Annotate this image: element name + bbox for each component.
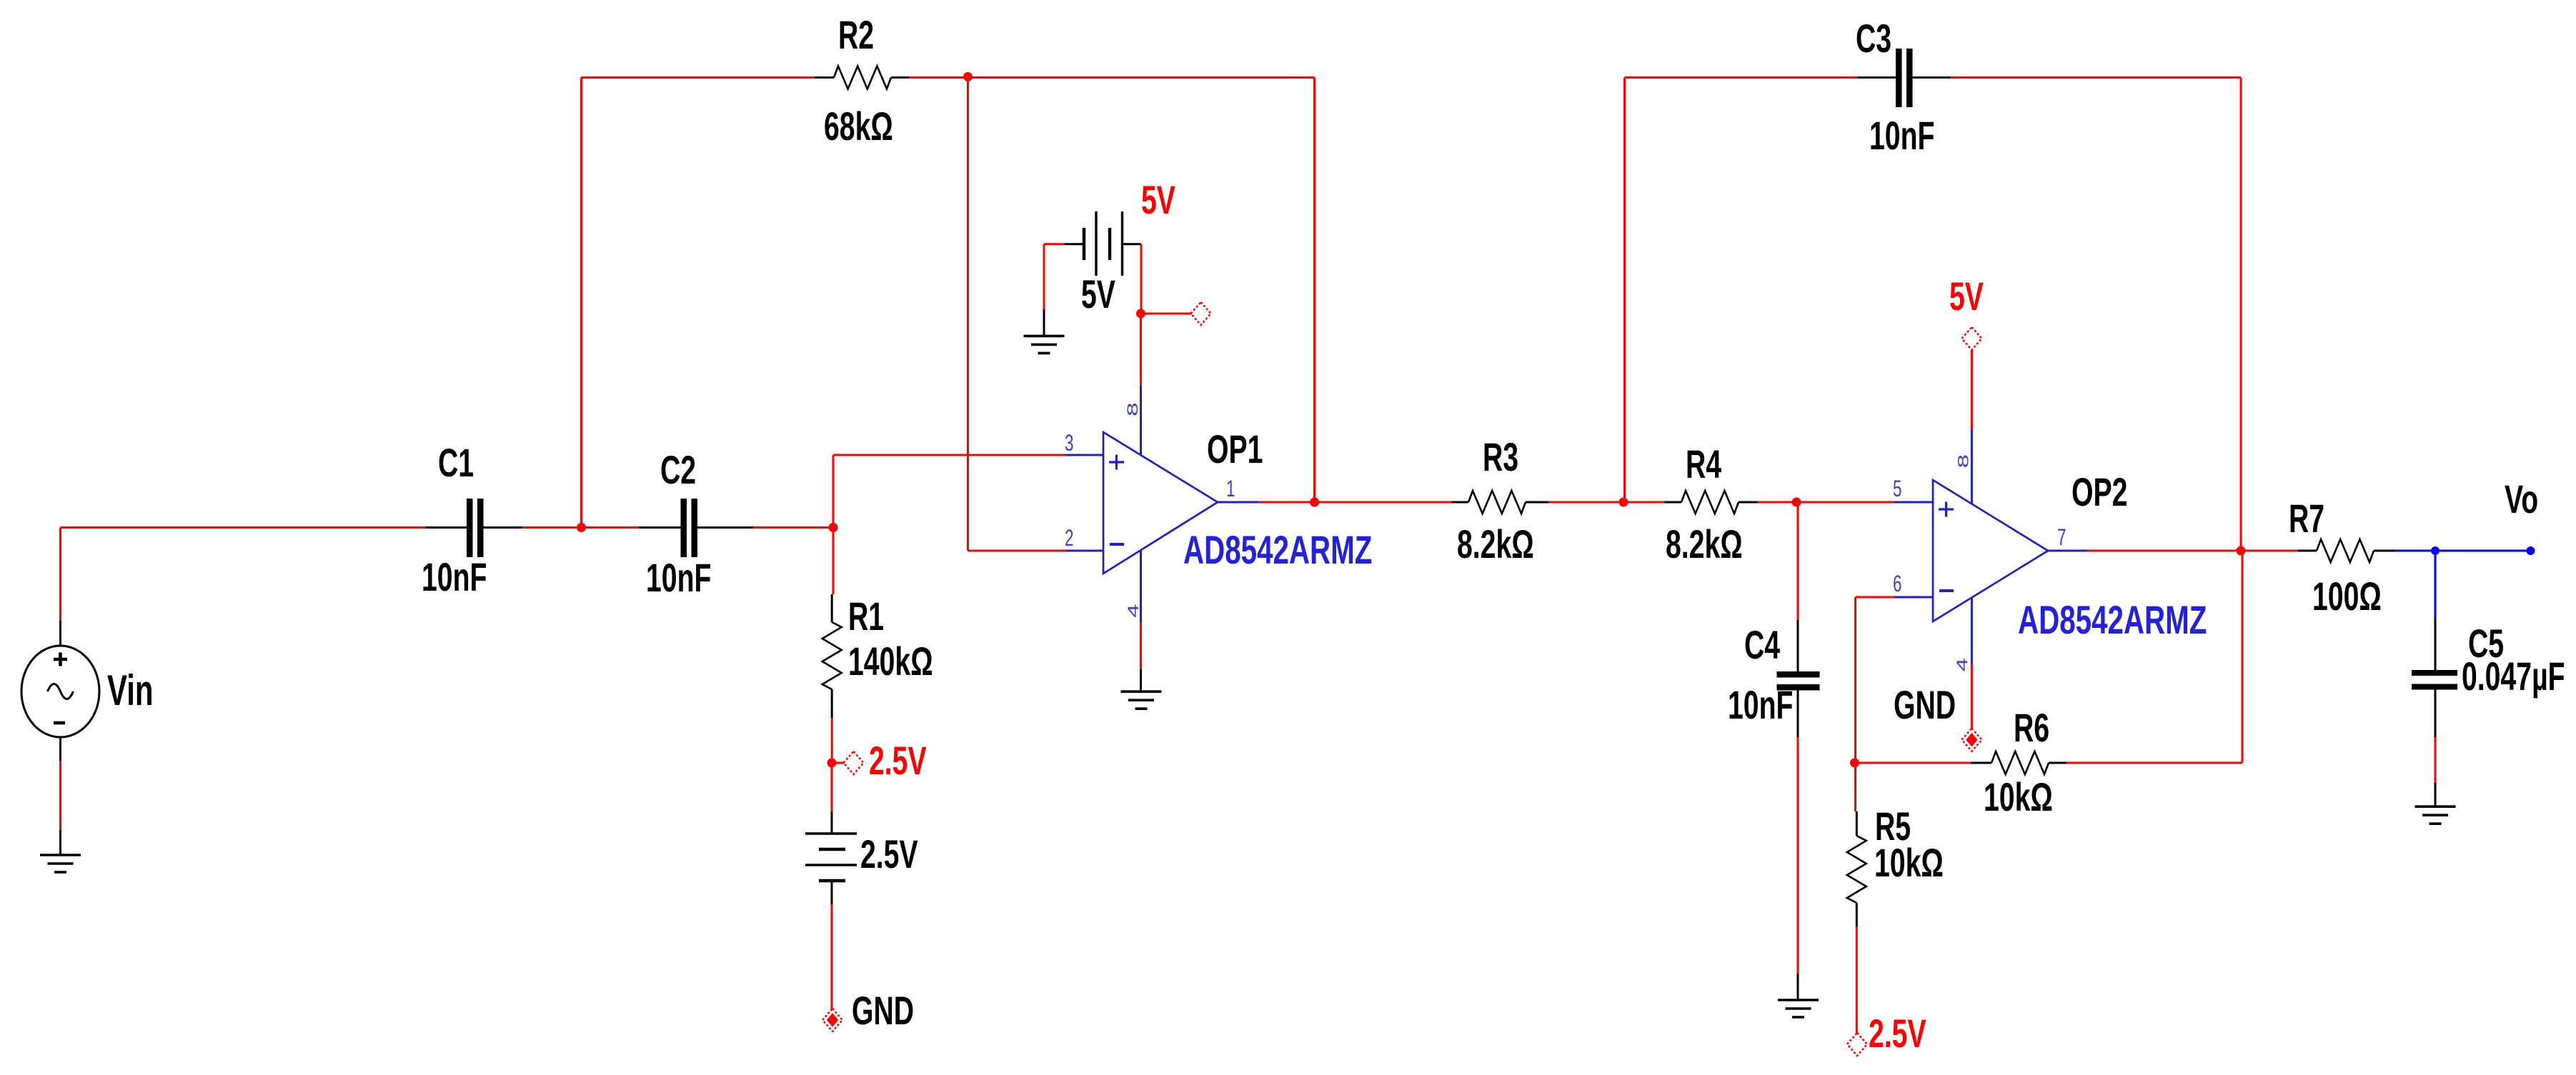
- label Vin: [107, 666, 154, 714]
- wire node E to R3: [1315, 501, 1452, 504]
- label C4: [1744, 623, 1780, 668]
- resistor R2: [815, 66, 909, 89]
- svg-text:GND: GND: [852, 989, 914, 1034]
- OP1 pin 4 number: [1125, 604, 1142, 618]
- wire node A to C2: [582, 526, 639, 529]
- svg-text:68kΩ: 68kΩ: [824, 104, 893, 149]
- wire OP2 pin 6 to node H: [1856, 597, 1894, 763]
- wire node D to 5V connector: [1141, 313, 1193, 315]
- OP2 pin 6 stub: [1894, 596, 1934, 599]
- capacitor C4: [1777, 671, 1820, 691]
- label C2: [660, 448, 696, 493]
- wire rail node B to right corner: [968, 76, 1315, 79]
- svg-text:2.5V: 2.5V: [869, 739, 927, 784]
- wire R5 down to 2.5V connector: [1856, 927, 1858, 1034]
- svg-text:7: 7: [2057, 524, 2066, 550]
- svg-text:C1: C1: [438, 441, 474, 486]
- net connector 5V (OP2): [1961, 327, 1981, 350]
- wire rail left segment to R2: [582, 76, 815, 79]
- value 140kΩ of R1: [848, 639, 933, 684]
- wire node J down to C5: [2435, 551, 2437, 670]
- value 8.2kΩ of R4: [1666, 522, 1743, 567]
- resistor R1: [822, 528, 842, 719]
- net label 2.5V (bottom): [1869, 1011, 1926, 1056]
- OP1 pin 1 output stub: [1218, 501, 1258, 504]
- svg-text:10kΩ: 10kΩ: [1984, 775, 2053, 820]
- value 10nF of C3: [1869, 114, 1934, 159]
- op-amp OP1 triangle: [1103, 432, 1218, 574]
- svg-text:Vo: Vo: [2505, 477, 2538, 522]
- wire R1 to 2.5V node: [831, 718, 833, 763]
- ground below battery V1: [1024, 336, 1065, 353]
- wire rail down to OP1 output: [1313, 78, 1316, 503]
- label R6: [2014, 706, 2049, 751]
- wire node C down to R1: [832, 528, 835, 595]
- svg-text:10nF: 10nF: [1869, 114, 1934, 159]
- OP1 pin 8 stub: [1140, 386, 1142, 455]
- value 10kΩ of R5: [1874, 841, 1944, 886]
- label C3: [1856, 16, 1891, 61]
- svg-text:Vin: Vin: [107, 666, 154, 714]
- wire 2.5V node to battery V2: [831, 763, 833, 834]
- node J junction (Vo net): [2431, 546, 2440, 555]
- value 2.5V of battery V2: [860, 832, 918, 877]
- node D junction (5V supply): [1136, 309, 1145, 319]
- AC source Vin: [21, 621, 99, 761]
- wire C5 down to ground: [2435, 690, 2437, 807]
- net label GND (OP2): [1894, 683, 1956, 728]
- wire OP2 pin 4 down to GND connector: [1971, 664, 1973, 729]
- svg-text:8.2kΩ: 8.2kΩ: [1666, 522, 1743, 567]
- label AD8542ARMZ (OP2): [2018, 599, 2207, 643]
- wire R4 to node G: [1758, 501, 1796, 504]
- svg-text:OP2: OP2: [2072, 470, 2127, 515]
- svg-text:6: 6: [1893, 571, 1901, 596]
- value 68kΩ of R2: [824, 104, 893, 149]
- svg-text:5: 5: [1893, 476, 1901, 501]
- wire Vin bottom: [59, 761, 61, 855]
- label OP2: [2072, 470, 2127, 515]
- svg-text:8: 8: [1125, 402, 1141, 416]
- wire battery V1 left to ground: [1043, 244, 1045, 336]
- OP1 pin 8 number: [1125, 402, 1141, 416]
- OP2 pin 4 stub: [1971, 598, 1973, 664]
- OP2 pin 4 number: [1954, 658, 1971, 672]
- svg-text:140kΩ: 140kΩ: [848, 639, 933, 684]
- value 5V of battery V1: [1081, 272, 1115, 317]
- resistor R7: [2298, 539, 2395, 562]
- wire C1 to node A: [522, 526, 582, 529]
- label AD8542ARMZ (OP1): [1183, 529, 1372, 573]
- svg-text:5V: 5V: [1081, 272, 1115, 317]
- OP1 pin 2 stub: [1065, 550, 1103, 552]
- ground below C4: [1778, 1000, 1819, 1017]
- svg-text:5V: 5V: [1949, 274, 1984, 319]
- node C junction (C2-R1-pin3): [829, 523, 838, 532]
- OP2 pin 5 number: [1893, 476, 1901, 501]
- OP2 pin 8 stub: [1971, 429, 1973, 504]
- svg-text:4: 4: [1125, 604, 1142, 618]
- wire battery V1 right down to node D: [1140, 244, 1143, 314]
- svg-text:10nF: 10nF: [646, 556, 711, 601]
- wire R3 to node F: [1548, 501, 1623, 504]
- svg-text:OP1: OP1: [1207, 427, 1263, 472]
- op-amp OP2 triangle: [1933, 480, 2048, 621]
- OP2 pin 7 output stub: [2048, 550, 2088, 552]
- svg-text:4: 4: [1954, 658, 1971, 672]
- net label 5V (OP1): [1141, 178, 1175, 223]
- resistor R5: [1847, 811, 1866, 927]
- svg-text:C2: C2: [660, 448, 696, 493]
- wire node I to R7: [2241, 550, 2298, 552]
- node Vo endpoint: [2527, 546, 2535, 555]
- node 2.5V junction: [827, 759, 845, 768]
- wire R7 to node J (blue net): [2395, 550, 2435, 552]
- label R2: [838, 13, 874, 58]
- svg-text:AD8542ARMZ: AD8542ARMZ: [2018, 599, 2207, 643]
- net connector 2.5V (bottom): [1847, 1033, 1867, 1056]
- wire OP2 output to node I: [2088, 550, 2241, 552]
- node E junction (OP1 output): [1310, 498, 1319, 507]
- wire node H down to R5: [1854, 763, 1856, 811]
- battery V1 5V: [1044, 211, 1141, 276]
- resistor R4: [1664, 491, 1758, 514]
- OP1 pin 3 number: [1065, 430, 1073, 456]
- wire node C up and right to pin 3: [833, 455, 1065, 528]
- svg-text:2.5V: 2.5V: [1869, 1011, 1926, 1056]
- OP2 pin 7 number: [2057, 524, 2066, 550]
- net connector 5V (OP1): [1191, 302, 1211, 325]
- wire R2 to node B: [909, 76, 968, 79]
- value 10nF of C2: [646, 556, 711, 601]
- node B junction (R2 - pin2 riser): [963, 72, 973, 81]
- label R7: [2289, 496, 2324, 541]
- value 10kΩ of R6: [1984, 775, 2053, 820]
- net connector 2.5V (mid): [844, 751, 864, 774]
- svg-text:1: 1: [1226, 476, 1235, 501]
- svg-text:R7: R7: [2289, 496, 2324, 541]
- svg-text:100Ω: 100Ω: [2312, 574, 2382, 619]
- OP1 pin 1 number: [1226, 476, 1235, 501]
- svg-text:R1: R1: [848, 594, 884, 639]
- resistor R3: [1451, 491, 1548, 514]
- wire node A up to R2 rail: [580, 78, 582, 528]
- capacitor C3: [1857, 49, 1951, 107]
- svg-text:5V: 5V: [1141, 178, 1175, 223]
- ground below Vin: [40, 855, 81, 872]
- wire C2 to node C: [753, 526, 833, 529]
- node I junction (OP2 output): [2237, 546, 2246, 556]
- svg-text:10nF: 10nF: [1728, 683, 1793, 728]
- wire OP1 output to node E: [1258, 501, 1315, 504]
- capacitor C1: [426, 499, 522, 557]
- wire OP1 pin 4 to ground: [1140, 622, 1142, 691]
- net connector GND (OP2): [1961, 729, 1981, 751]
- node H junction (pin6-R5-R6): [1850, 759, 1859, 768]
- label R5: [1875, 804, 1911, 849]
- wire node H to R6: [1855, 762, 1971, 764]
- OP1 pin 3 stub: [1065, 454, 1103, 456]
- svg-text:GND: GND: [1894, 683, 1956, 728]
- wire node G to OP2 pin 5: [1796, 501, 1894, 504]
- svg-text:AD8542ARMZ: AD8542ARMZ: [1183, 529, 1372, 573]
- svg-text:R6: R6: [2014, 706, 2049, 751]
- svg-text:0.047µF: 0.047µF: [2462, 654, 2565, 699]
- svg-text:R2: R2: [838, 13, 874, 58]
- svg-text:3: 3: [1065, 430, 1073, 456]
- value 100Ω of R7: [2312, 574, 2382, 619]
- ground below C5: [2415, 806, 2456, 824]
- svg-text:8.2kΩ: 8.2kΩ: [1457, 522, 1534, 567]
- resistor R6: [1971, 751, 2067, 774]
- net label 5V (OP2): [1949, 274, 1984, 319]
- net label 2.5V (mid): [869, 739, 927, 784]
- svg-text:2.5V: 2.5V: [860, 832, 918, 877]
- svg-text:C3: C3: [1856, 16, 1891, 61]
- svg-text:R3: R3: [1483, 435, 1518, 480]
- value 10nF of C4: [1728, 683, 1793, 728]
- wire Vin top to main line: [61, 528, 427, 621]
- label R3: [1483, 435, 1518, 480]
- wire 5V connector down to OP2 pin 8: [1971, 350, 1973, 429]
- net label Vo: [2505, 477, 2538, 522]
- value 8.2kΩ of R3: [1457, 522, 1534, 567]
- value 10nF of C1: [422, 555, 487, 600]
- wire node J to Vo: [2435, 550, 2531, 552]
- wire node F up to C3 rail: [1625, 78, 1858, 503]
- svg-text:R4: R4: [1686, 442, 1721, 487]
- label C1: [438, 441, 474, 486]
- OP2 pin 5 stub: [1894, 501, 1934, 504]
- capacitor C5: [2412, 670, 2457, 690]
- svg-text:2: 2: [1065, 525, 1073, 551]
- wire node B down to pin2 corner: [968, 78, 1066, 551]
- value 0.047µF of C5: [2462, 654, 2565, 699]
- svg-text:C4: C4: [1744, 623, 1780, 668]
- battery V2 2.5V: [805, 834, 857, 881]
- wire C3 right to OP2 output: [1951, 78, 2242, 551]
- OP2 pin 6 number: [1893, 571, 1901, 596]
- svg-text:8: 8: [1955, 454, 1971, 469]
- node F junction (R3-R4-C3): [1619, 498, 1628, 507]
- label R1: [848, 594, 884, 639]
- node G junction (R4-C4-pin5): [1792, 498, 1801, 507]
- wire R6 to output riser: [2067, 551, 2242, 763]
- OP2 pin 8 number: [1955, 454, 1971, 469]
- net label GND (bottom left): [852, 989, 914, 1034]
- node A junction (C1-C2, feedback riser): [577, 523, 586, 532]
- ground below OP1: [1121, 691, 1162, 709]
- wire battery V2 to GND: [831, 881, 833, 1009]
- OP1 pin 4 stub: [1140, 551, 1142, 622]
- svg-text:10nF: 10nF: [422, 555, 487, 600]
- wire node D down to pin 8: [1140, 314, 1142, 386]
- label R4: [1686, 442, 1721, 487]
- label OP1: [1207, 427, 1263, 472]
- net connector GND (bottom left): [822, 1009, 842, 1031]
- label C5: [2468, 621, 2504, 666]
- svg-text:10kΩ: 10kΩ: [1874, 841, 1944, 886]
- wire node F to R4: [1623, 501, 1664, 504]
- wire node G down to C4: [1797, 502, 1799, 671]
- capacitor C2: [639, 499, 753, 557]
- wire C4 down to ground: [1797, 691, 1799, 1001]
- OP1 pin 2 number: [1065, 525, 1073, 551]
